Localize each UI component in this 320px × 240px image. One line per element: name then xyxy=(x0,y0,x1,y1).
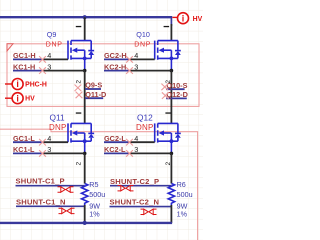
junction dot R5/rail xyxy=(83,221,87,225)
svg-text:1%: 1% xyxy=(177,210,188,219)
source pin down + pin number 2 xyxy=(170,71,172,124)
transistor Q9 body xyxy=(68,41,94,73)
no-erc cross kelvin xyxy=(39,150,46,157)
gate wire/pin GC2-H xyxy=(104,58,129,60)
net label Q9-S with stub xyxy=(85,88,101,90)
kelvin wire/pin KC1-H xyxy=(13,70,42,72)
gate wire/pin GC1-H xyxy=(13,58,42,60)
svg-text:Q12: Q12 xyxy=(137,113,153,123)
svg-text:GC1-H: GC1-H xyxy=(13,51,36,60)
svg-text:4: 4 xyxy=(134,134,138,143)
no-erc cross kelvin xyxy=(126,150,133,157)
no-erc cross gate xyxy=(39,56,46,63)
source pin down + pin number 2 xyxy=(170,154,172,184)
svg-text:GC2-H: GC2-H xyxy=(104,51,127,60)
transistor Q10 body xyxy=(155,41,181,73)
svg-text:GC1-L: GC1-L xyxy=(13,134,35,143)
transistor Q9 drain pin xyxy=(84,17,86,40)
source pin down + pin number 2 xyxy=(84,154,86,184)
pin number 1 (rotated) xyxy=(76,26,82,27)
svg-text:DNP: DNP xyxy=(134,41,151,48)
svg-text:2: 2 xyxy=(165,161,172,165)
blanket A (top section) xyxy=(7,44,199,107)
pin number 1 (rotated) xyxy=(165,112,171,113)
gate wire/pin GC2-L xyxy=(104,141,129,143)
svg-text:1%: 1% xyxy=(89,210,100,219)
R6 bottom pin to rail xyxy=(170,205,172,223)
svg-text:4: 4 xyxy=(134,51,138,60)
svg-text:R5: R5 xyxy=(89,180,98,189)
transistor Q10 drain pin xyxy=(170,24,172,41)
svg-text:Q12-D: Q12-D xyxy=(166,90,188,99)
svg-text:500u: 500u xyxy=(177,190,193,199)
no-erc cross gate xyxy=(126,56,133,63)
diff pair directive C1_P xyxy=(58,187,74,192)
svg-text:KC2-L: KC2-L xyxy=(104,145,126,154)
svg-text:HV: HV xyxy=(193,16,203,23)
gate wire/pin GC1-L xyxy=(13,141,42,143)
svg-text:SHUNT-C2_N: SHUNT-C2_N xyxy=(110,198,160,207)
resistor R6 zigzag xyxy=(168,184,174,206)
junction Q9 drain on rail xyxy=(83,15,87,19)
R5 bottom pin xyxy=(84,205,86,223)
no-erc cross gate xyxy=(39,139,46,146)
transistor Q11 body xyxy=(68,123,94,155)
blanket A collapse triangle xyxy=(7,44,13,51)
kelvin wire/pin KC1-L xyxy=(13,152,42,154)
source pin down + pin number 2 xyxy=(84,71,86,124)
svg-text:4: 4 xyxy=(47,51,51,60)
svg-text:KC1-L: KC1-L xyxy=(13,145,35,154)
svg-text:SHUNT-C1_P: SHUNT-C1_P xyxy=(16,177,65,186)
svg-text:HV: HV xyxy=(25,96,35,103)
diff pair directive C2_N xyxy=(141,209,157,214)
svg-text:DNP: DNP xyxy=(136,123,154,132)
net label Q12-D with stub xyxy=(166,97,187,99)
svg-text:Q10-S: Q10-S xyxy=(166,81,187,90)
svg-text:KC2-H: KC2-H xyxy=(104,62,126,71)
net label Q10-S with stub xyxy=(166,88,184,90)
svg-text:R6: R6 xyxy=(177,180,186,189)
blanket B (bottom section) xyxy=(0,129,198,240)
pin number 1 (rotated) xyxy=(164,26,170,27)
svg-text:KC1-H: KC1-H xyxy=(13,62,35,71)
svg-text:3: 3 xyxy=(134,62,138,71)
parameter set HV (left, on blanket edge) xyxy=(5,93,35,104)
svg-text:Q10: Q10 xyxy=(136,30,150,39)
bottom rail wire xyxy=(0,222,172,224)
svg-text:2: 2 xyxy=(76,161,83,165)
resistor R5 zigzag xyxy=(82,184,88,206)
svg-text:DNP: DNP xyxy=(49,123,67,132)
parameter set PHC-H (left, on blanket edge) xyxy=(5,79,47,90)
diff pair directive C2_P xyxy=(118,186,134,191)
net label Q11-D with stub xyxy=(85,97,103,99)
no-erc cross kelvin xyxy=(126,67,133,74)
kelvin wire/pin KC2-L xyxy=(104,152,129,154)
svg-text:Q11-D: Q11-D xyxy=(85,90,106,99)
svg-text:3: 3 xyxy=(47,62,51,71)
svg-text:Q9-S: Q9-S xyxy=(85,81,102,90)
svg-text:SHUNT-C1_N: SHUNT-C1_N xyxy=(16,197,66,206)
svg-text:3: 3 xyxy=(134,145,138,154)
svg-text:Q9: Q9 xyxy=(47,30,57,39)
svg-text:PHC-H: PHC-H xyxy=(25,82,47,89)
kelvin wire/pin KC2-H xyxy=(104,70,129,72)
svg-text:GC2-L: GC2-L xyxy=(104,134,126,143)
svg-text:4: 4 xyxy=(47,134,51,143)
pin number 1 (rotated) xyxy=(76,112,82,113)
wire: rail corner down to Q10 drain xyxy=(170,16,172,26)
transistor Q12 body xyxy=(155,123,181,155)
svg-text:SHUNT-C2_P: SHUNT-C2_P xyxy=(110,177,159,186)
svg-text:500u: 500u xyxy=(89,190,105,199)
no-erc cross gate xyxy=(126,139,133,146)
svg-text:DNP: DNP xyxy=(46,41,63,48)
svg-text:3: 3 xyxy=(47,145,51,154)
wire: HV top rail xyxy=(0,16,171,18)
no-erc cross kelvin xyxy=(39,67,46,74)
diff pair directive C1_N xyxy=(59,208,75,213)
parameter set HV (top right) xyxy=(172,13,202,24)
svg-text:2: 2 xyxy=(76,80,83,84)
svg-text:Q11: Q11 xyxy=(50,113,65,123)
